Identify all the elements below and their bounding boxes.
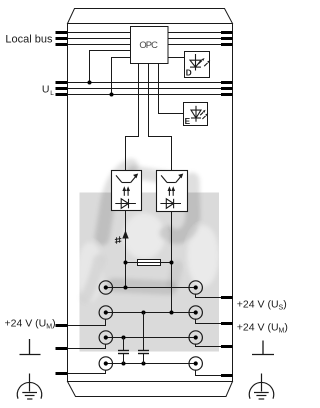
optocoupler U3 phototransistor [161, 174, 182, 182]
local bus wire 3 [56, 44, 222, 46]
terminal center dots [104, 285, 198, 365]
node fuse right [170, 261, 174, 265]
LED D box [185, 52, 210, 78]
optocoupler U2 box [112, 171, 142, 211]
svg-text:OPC: OPC [139, 39, 158, 50]
right connector bar row2 [221, 322, 233, 325]
optocoupler U2 diode [115, 199, 136, 209]
wire OPC pin2 to optocoupler 2 [149, 64, 172, 171]
node row2 cap [142, 311, 146, 315]
wire terminal row1 right to bar [196, 294, 222, 298]
left protective earth symbol [17, 374, 41, 400]
wire opto1 down to terminal row 1 [125, 211, 127, 288]
optocoupler U2 light arrows [122, 186, 130, 196]
node row2 fuse [170, 311, 174, 315]
right connector bar row3 [221, 345, 233, 348]
fuse wire [126, 262, 172, 264]
wire UL3 to OPC [112, 58, 131, 95]
watermark logo [0, 0, 1, 1]
wire OPC pin3 to LED E [159, 64, 184, 114]
node row1 [124, 286, 128, 290]
wire OPC pin1 to optocoupler 1 [126, 64, 139, 171]
supply arrow [122, 230, 128, 238]
LED D symbol [190, 54, 210, 71]
svg-text:D: D [186, 68, 192, 77]
node fuse left [124, 261, 128, 265]
local bus wire 2 [56, 38, 222, 40]
local bus right connector bars [221, 33, 233, 45]
UL left connector bars [56, 83, 68, 95]
left connector bar row4 [56, 372, 68, 375]
right protective earth symbol [249, 374, 273, 400]
OPC block U1 [131, 27, 169, 64]
capacitor C2 [138, 313, 149, 364]
fuse F1 [138, 260, 161, 266]
UL wire 3 [56, 94, 222, 96]
svg-text:L: L [50, 90, 54, 97]
sharp symbol [115, 236, 121, 243]
node row3 [122, 336, 126, 340]
svg-text:U: U [42, 83, 50, 95]
wire bar to terminal row4 left [68, 370, 106, 373]
optocoupler U2 phototransistor [116, 174, 137, 182]
capacitor C1 [118, 338, 129, 364]
terminal row wire 1 [106, 287, 196, 289]
terminal row wire 2 [106, 312, 196, 314]
wire terminal row2 right to bar [196, 319, 222, 324]
UL wire 1 [56, 82, 222, 84]
node row4 left [122, 362, 126, 366]
node on UL3 [110, 93, 114, 97]
module housing base [68, 382, 233, 397]
right connector bar row4 [221, 374, 233, 377]
node on UL1 [88, 81, 92, 85]
node row4 right [142, 362, 146, 366]
right functional earth symbol [252, 341, 274, 355]
right connector bar row1 [221, 296, 233, 299]
local bus wire 1 [56, 32, 222, 34]
left connector bar row2 [56, 324, 68, 327]
svg-text:E: E [185, 117, 191, 126]
wire terminal row4 right to bar [196, 370, 222, 376]
wire opto2 down to terminal row 2 [171, 212, 173, 313]
left connector bar row3 [56, 347, 68, 350]
terminal circles left column [99, 281, 112, 370]
LED E box [184, 103, 208, 126]
module housing front face [68, 24, 233, 382]
svg-text:Local bus: Local bus [5, 33, 53, 45]
terminal row wire 3 [106, 337, 196, 339]
wire bar to terminal row3 left [68, 344, 106, 348]
wire OPC to LED D [168, 57, 185, 59]
wire bar to terminal row2 left [68, 319, 106, 325]
optocoupler U3 box [157, 171, 188, 212]
left functional earth symbol [20, 339, 41, 355]
UL right connector bars [221, 83, 233, 95]
electronics grey area [80, 193, 220, 352]
optocoupler U3 diode [160, 199, 181, 209]
terminal row wire 4 [106, 363, 196, 365]
local bus left connector bars [56, 33, 68, 45]
optocoupler U3 light arrows [168, 186, 176, 196]
module housing top face [68, 9, 233, 24]
UL wire 2 [56, 88, 222, 90]
wire UL1 to OPC [90, 51, 131, 83]
terminal circles right column [189, 281, 202, 370]
LED E symbol [191, 106, 208, 122]
wire terminal row3 right to bar [196, 344, 222, 347]
